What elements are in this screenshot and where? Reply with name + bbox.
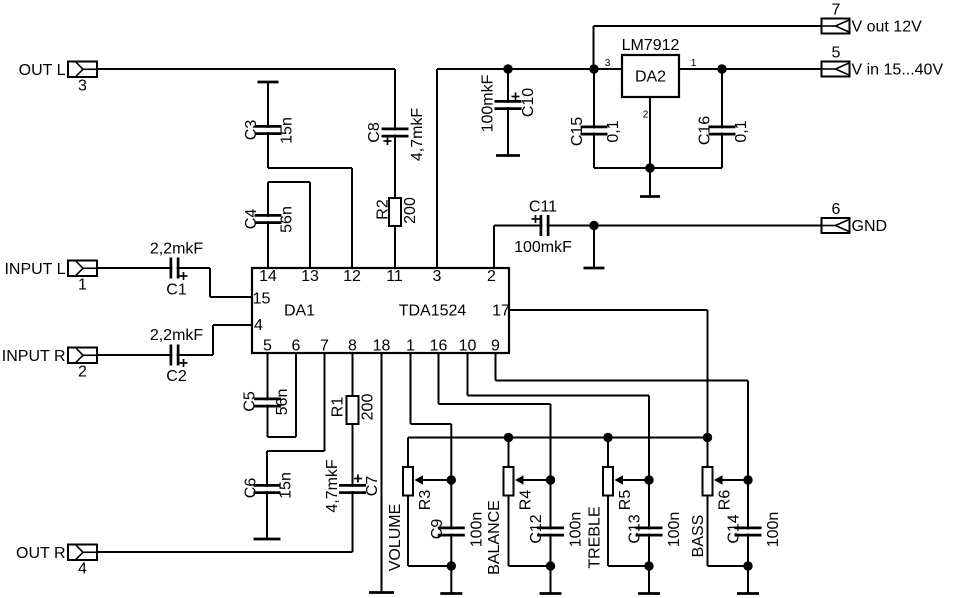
svg-text:C10: C10 bbox=[520, 88, 537, 117]
svg-text:14: 14 bbox=[259, 268, 277, 285]
svg-text:C13: C13 bbox=[627, 514, 644, 543]
svg-text:0,1: 0,1 bbox=[605, 120, 622, 142]
svg-text:C6: C6 bbox=[243, 478, 260, 499]
svg-text:VOLUME: VOLUME bbox=[387, 504, 404, 572]
svg-text:R4: R4 bbox=[518, 490, 535, 511]
svg-text:10: 10 bbox=[459, 338, 477, 355]
svg-text:18: 18 bbox=[373, 338, 391, 355]
svg-text:0,1: 0,1 bbox=[733, 120, 750, 142]
svg-text:2,2mkF: 2,2mkF bbox=[150, 327, 204, 344]
svg-text:1: 1 bbox=[78, 277, 87, 294]
svg-text:C9: C9 bbox=[429, 519, 446, 540]
svg-text:TREBLE: TREBLE bbox=[587, 506, 604, 568]
svg-text:100n: 100n bbox=[765, 512, 782, 548]
svg-text:INPUT L: INPUT L bbox=[4, 261, 65, 278]
svg-text:5: 5 bbox=[263, 338, 272, 355]
svg-text:OUT L: OUT L bbox=[19, 62, 66, 79]
svg-text:BASS: BASS bbox=[690, 515, 707, 558]
svg-text:INPUT R: INPUT R bbox=[2, 348, 66, 365]
svg-text:5: 5 bbox=[832, 45, 841, 62]
svg-text:TDA1524: TDA1524 bbox=[399, 303, 467, 320]
svg-text:15: 15 bbox=[253, 291, 271, 308]
svg-text:3: 3 bbox=[433, 268, 442, 285]
svg-text:17: 17 bbox=[492, 303, 510, 320]
svg-text:3: 3 bbox=[78, 78, 87, 95]
svg-text:C5: C5 bbox=[242, 391, 259, 412]
svg-text:V out 12V: V out 12V bbox=[852, 19, 923, 36]
svg-text:C7: C7 bbox=[364, 476, 381, 497]
svg-text:4,7mkF: 4,7mkF bbox=[324, 459, 341, 513]
svg-text:15n: 15n bbox=[278, 472, 295, 499]
svg-text:6: 6 bbox=[832, 201, 841, 218]
svg-text:4: 4 bbox=[78, 561, 87, 578]
svg-text:C14: C14 bbox=[726, 514, 743, 543]
svg-text:1: 1 bbox=[406, 338, 415, 355]
svg-text:R2: R2 bbox=[375, 199, 392, 220]
svg-text:7: 7 bbox=[320, 338, 329, 355]
svg-text:OUT R: OUT R bbox=[16, 545, 65, 562]
svg-text:100mkF: 100mkF bbox=[480, 74, 497, 132]
svg-text:C11: C11 bbox=[529, 199, 557, 216]
svg-text:R6: R6 bbox=[717, 490, 734, 511]
svg-text:100n: 100n bbox=[568, 512, 585, 548]
svg-text:2: 2 bbox=[78, 364, 87, 381]
svg-text:C2: C2 bbox=[166, 368, 187, 385]
svg-text:DA1: DA1 bbox=[284, 303, 315, 320]
svg-text:100mkF: 100mkF bbox=[514, 239, 572, 256]
svg-text:9: 9 bbox=[491, 338, 500, 355]
svg-text:GND: GND bbox=[852, 218, 888, 235]
svg-text:56n: 56n bbox=[274, 389, 291, 416]
svg-text:LM7912: LM7912 bbox=[622, 37, 680, 54]
svg-text:1: 1 bbox=[691, 58, 697, 69]
svg-text:15n: 15n bbox=[279, 117, 296, 144]
svg-text:V in 15...40V: V in 15...40V bbox=[852, 62, 944, 79]
svg-text:200: 200 bbox=[402, 197, 419, 224]
svg-text:2,2mkF: 2,2mkF bbox=[150, 241, 204, 258]
svg-text:56n: 56n bbox=[279, 206, 296, 233]
svg-text:100n: 100n bbox=[468, 512, 485, 548]
svg-text:2: 2 bbox=[643, 110, 649, 121]
svg-text:C15: C15 bbox=[569, 117, 586, 146]
svg-text:13: 13 bbox=[301, 268, 319, 285]
svg-text:R3: R3 bbox=[417, 490, 434, 511]
svg-text:2: 2 bbox=[487, 268, 496, 285]
svg-text:4,7mkF: 4,7mkF bbox=[409, 108, 426, 162]
svg-text:C1: C1 bbox=[166, 282, 187, 299]
svg-text:11: 11 bbox=[386, 268, 403, 285]
svg-text:R5: R5 bbox=[617, 490, 634, 511]
svg-text:C12: C12 bbox=[528, 514, 545, 543]
svg-text:16: 16 bbox=[430, 338, 448, 355]
svg-text:200: 200 bbox=[360, 394, 377, 421]
svg-text:8: 8 bbox=[348, 338, 357, 355]
svg-text:C8: C8 bbox=[366, 122, 383, 143]
svg-text:C4: C4 bbox=[243, 209, 260, 230]
svg-text:12: 12 bbox=[343, 268, 361, 285]
svg-text:100n: 100n bbox=[666, 512, 683, 548]
svg-text:6: 6 bbox=[292, 338, 301, 355]
svg-text:R1: R1 bbox=[330, 397, 347, 418]
svg-text:C3: C3 bbox=[243, 120, 260, 141]
svg-text:4: 4 bbox=[254, 317, 263, 334]
svg-text:3: 3 bbox=[605, 58, 611, 69]
svg-text:7: 7 bbox=[832, 2, 841, 19]
svg-text:DA2: DA2 bbox=[635, 69, 666, 86]
svg-text:C16: C16 bbox=[697, 116, 714, 145]
svg-text:BALANCE: BALANCE bbox=[486, 500, 503, 575]
